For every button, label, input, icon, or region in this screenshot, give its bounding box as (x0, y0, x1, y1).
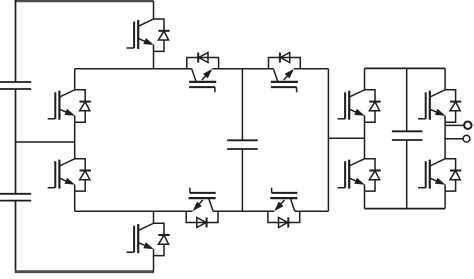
IGBT Q4 collector lead (153, 211, 155, 223)
horizontal switch S2 (middle top-right) (269, 52, 301, 92)
IGBT Q7 (right bridge top-right) (418, 90, 461, 123)
left DC rail lower segment (15, 201, 17, 272)
IGBT Q4 (left section, bottom) (127, 223, 170, 256)
IGBT Q3 (left leg lower) (48, 158, 91, 191)
output terminal upper (464, 122, 471, 129)
IGBT Q1 emitter lead (153, 51, 155, 68)
horizontal switch S1 (middle top-left) (187, 52, 219, 92)
capacitor C4 bottom lead (406, 140, 408, 209)
right capacitor C4 top lead (406, 68, 408, 131)
IGBT Q8 (right bridge bottom-right) (418, 158, 461, 191)
IGBT Q5 (right bridge top-left) (338, 90, 381, 123)
IGBT Q2 (left leg upper) (48, 90, 91, 123)
horizontal switch S4 (middle bottom-right, rotated) (268, 188, 300, 228)
IGBT Q7-Q8 leg spine (444, 122, 446, 159)
right section bottom rail (365, 208, 446, 210)
capacitor C3 bottom plate (227, 148, 258, 150)
IGBT Q2 collector lead (74, 69, 76, 90)
IGBT Q7 collector lead (444, 68, 446, 89)
IGBT Q4 emitter lead (153, 256, 155, 272)
IGBT Q3 emitter lead (74, 191, 76, 211)
capacitor C4 top plate (392, 130, 423, 132)
output stub upper (445, 124, 464, 126)
middle section right rail (327, 69, 329, 212)
top middle wire segment b (212, 68, 273, 70)
bottom middle wire segment a (75, 210, 193, 212)
left DC rail middle segment (15, 89, 17, 194)
capacitor C3 bottom lead (241, 149, 243, 211)
capacitor C1 bottom plate (0, 88, 31, 90)
horizontal switch S3 (middle bottom-left, rotated) (186, 188, 218, 228)
IGBT Q1 collector lead (153, 1, 155, 19)
IGBT Q6 (right bridge bottom-left) (338, 158, 381, 191)
bottom rail (left section) (15, 270, 154, 273)
top rail (left section) (15, 0, 154, 2)
bottom middle wire segment c (295, 210, 329, 212)
link wire middle to right section (328, 137, 364, 139)
capacitor midpoint wire (16, 141, 75, 143)
capacitor C2 top plate (0, 193, 31, 195)
IGBT Q6 emitter lead (364, 191, 366, 209)
output stub lower (445, 138, 463, 140)
IGBT Q5 emitter lead (364, 122, 366, 159)
capacitor C4 bottom plate (392, 139, 423, 141)
capacitor C2 bottom plate (0, 200, 31, 202)
capacitor C1 top plate (0, 81, 31, 83)
center capacitor C3 top lead (241, 69, 243, 141)
top middle wire segment a (75, 68, 192, 70)
IGBT Q8 emitter lead (444, 191, 446, 209)
bottom middle wire segment b (213, 210, 274, 212)
right section top rail (365, 67, 446, 69)
top middle wire segment c (294, 68, 328, 70)
output terminal lower (463, 135, 470, 142)
IGBT Q2-Q3 leg spine (74, 122, 76, 159)
left DC rail upper segment (15, 0, 17, 82)
IGBT Q5 collector lead (364, 68, 366, 89)
capacitor C3 top plate (227, 139, 258, 141)
IGBT Q1 (left section, top) (127, 19, 170, 52)
